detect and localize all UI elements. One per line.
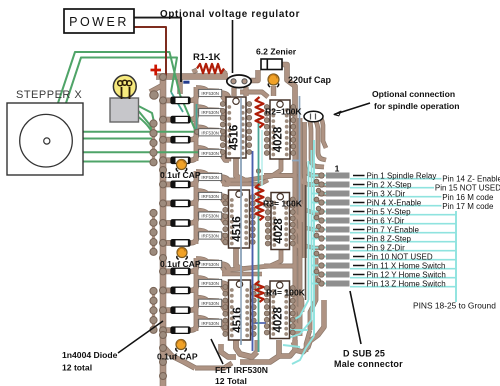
svg-text:Pin 5 Y-Step: Pin 5 Y-Step: [367, 207, 412, 216]
svg-text:IRF530N: IRF530N: [201, 194, 219, 199]
svg-text:IRF530N: IRF530N: [201, 301, 219, 306]
svg-text:R2=100K: R2=100K: [265, 107, 302, 117]
svg-text:12 Total: 12 Total: [215, 376, 247, 386]
svg-text:FET IRF530N: FET IRF530N: [215, 365, 268, 375]
svg-text:R4= 100K: R4= 100K: [266, 288, 306, 298]
svg-text:R3= 100K: R3= 100K: [263, 199, 303, 209]
svg-text:12 total: 12 total: [62, 363, 92, 373]
svg-text:Pin 13 Z Home Switch: Pin 13 Z Home Switch: [367, 279, 446, 288]
svg-text:4028: 4028: [273, 126, 285, 152]
svg-text:STEPPER X: STEPPER X: [16, 89, 82, 101]
svg-text:Pin 9 Z-Dir: Pin 9 Z-Dir: [367, 243, 406, 252]
svg-text:IRF530N: IRF530N: [201, 110, 219, 115]
svg-text:POWER: POWER: [69, 15, 129, 29]
svg-text:Pin 14 Z- Enable: Pin 14 Z- Enable: [442, 174, 500, 183]
svg-text:1n4004 Diode: 1n4004 Diode: [62, 350, 118, 360]
svg-text:IRF530N: IRF530N: [201, 262, 219, 267]
svg-text:PINS 18-25 to Ground: PINS 18-25 to Ground: [413, 301, 496, 311]
svg-text:4516: 4516: [229, 125, 241, 151]
svg-text:IRF530N: IRF530N: [201, 130, 219, 135]
svg-text:Pin 15 NOT USED: Pin 15 NOT USED: [435, 183, 500, 192]
svg-text:Pin 6 Y-Dir: Pin 6 Y-Dir: [367, 216, 405, 225]
svg-text:4516: 4516: [232, 307, 244, 333]
svg-text:Pin 12 Y Home Switch: Pin 12 Y Home Switch: [367, 270, 446, 279]
svg-text:IRF530N: IRF530N: [201, 91, 219, 96]
svg-text:IRF530N: IRF530N: [201, 175, 219, 180]
svg-text:Pin 11 X Home Switch: Pin 11 X Home Switch: [367, 261, 446, 270]
svg-text:IRF530N: IRF530N: [201, 321, 219, 326]
svg-text:Male connector: Male connector: [334, 359, 403, 369]
svg-text:PiN 4 X-Enable: PiN 4 X-Enable: [367, 198, 422, 207]
svg-text:4028: 4028: [273, 218, 285, 244]
svg-text:1: 1: [335, 164, 340, 174]
svg-text:Pin 1 Spindle Relay: Pin 1 Spindle Relay: [367, 171, 437, 180]
svg-text:R1-1K: R1-1K: [193, 52, 221, 63]
svg-text:IRF530N: IRF530N: [201, 234, 219, 239]
svg-text:Pin 8 Z-Step: Pin 8 Z-Step: [367, 234, 412, 243]
svg-text:IRF530N: IRF530N: [201, 281, 219, 286]
svg-text:Optional voltage regulator: Optional voltage regulator: [160, 9, 300, 20]
svg-text:Pin 7 Y-Enable: Pin 7 Y-Enable: [367, 225, 420, 234]
svg-text:Pin 10 NOT USED: Pin 10 NOT USED: [367, 252, 433, 261]
svg-text:220uf Cap: 220uf Cap: [288, 75, 332, 85]
svg-text:Optional connection: Optional connection: [372, 89, 455, 99]
svg-text:IRF530N: IRF530N: [201, 151, 219, 156]
svg-text:0.1uf CAP: 0.1uf CAP: [160, 259, 201, 269]
svg-text:4028: 4028: [272, 306, 284, 332]
svg-text:Pin 2 X-Step: Pin 2 X-Step: [367, 180, 412, 189]
svg-text:for spindle operation: for spindle operation: [374, 101, 459, 111]
svg-text:Pin 16 M code: Pin 16 M code: [442, 193, 494, 202]
svg-text:IRF530N: IRF530N: [201, 214, 219, 219]
svg-text:Pin 3 X-Dir: Pin 3 X-Dir: [367, 189, 406, 198]
svg-text:0.1uf CAP: 0.1uf CAP: [160, 170, 201, 180]
svg-text:Pin 17 M code: Pin 17 M code: [442, 202, 494, 211]
svg-text:0.1uf CAP: 0.1uf CAP: [157, 352, 198, 362]
svg-text:6.2 Zenier: 6.2 Zenier: [256, 47, 297, 57]
svg-text:D SUB 25: D SUB 25: [343, 349, 385, 359]
